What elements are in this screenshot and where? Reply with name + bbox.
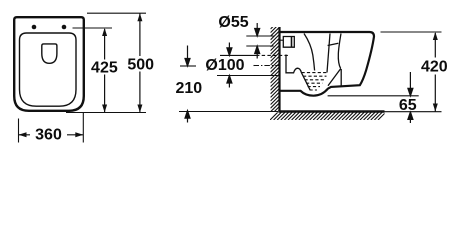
360 left extension line [18,119,20,143]
arrow 425 down [102,105,107,113]
arrow 360 left [19,132,27,137]
dim 100: bottom edge line [217,75,280,77]
label 360 [32,128,66,142]
dim 100: upper arrow [227,43,232,56]
bolt dot left [32,25,37,30]
wall face line [278,27,280,112]
inlet spud outer box [283,37,294,48]
65 top extension line [328,95,419,97]
floor line (thick under toilet) [278,110,384,112]
label 500 [127,57,156,72]
side-view bowl back inner wall [304,34,315,71]
dim line 425 [104,29,106,113]
svg-text:Ø100: Ø100 [205,57,244,74]
wall hatching [271,21,280,120]
500 top extension line [87,12,146,14]
dim line 420 [434,33,436,112]
arrow 420 up [433,32,438,40]
arrow 360 right [75,132,83,137]
dim line 360 [19,134,84,136]
toilet top-view outer body [14,17,84,111]
svg-text:360: 360 [35,127,62,144]
label diameter 100 [205,58,245,72]
dim 65: lower arrow [408,112,413,123]
arrow 425 up [102,28,107,36]
svg-text:210: 210 [175,80,202,97]
bolt dot right [62,25,67,30]
svg-text:425: 425 [91,59,118,76]
dim 210: top tick line [180,65,196,67]
label 65 [396,98,419,111]
dim 100: top edge hidden continuation [256,54,290,56]
label 420 [420,59,449,73]
arrow 420 down [433,104,438,112]
dim 55: upper arrow [255,23,260,36]
inlet spud flange line [291,37,293,48]
floor reference line (thin, to dimension area) [179,111,442,113]
toilet top-view seat inner ring [20,33,77,106]
svg-text:500: 500 [127,56,154,73]
water dashes in trap [302,73,329,90]
svg-text:420: 420 [421,59,448,76]
dim 100: centerline [254,65,281,67]
dim 210: upper arrow [185,46,190,67]
arrow 500 down [137,105,142,113]
dim 100: top edge line [220,54,256,56]
420 top extension line [381,31,442,33]
dim 55: top edge line [246,35,273,37]
side-view trap weir [286,55,310,90]
side-view trap right inner wall [328,69,341,86]
side-view flush funnel line [327,34,330,73]
svg-text:65: 65 [399,97,417,114]
bottom reference line for 425/500 [66,112,146,114]
inlet spud wall tick [281,39,284,41]
dim 210: lower arrow [185,111,190,123]
side-view bowl front inner wall [338,34,341,69]
leader line from bolt dots (425 top reference) [73,27,113,29]
360 right extension line [82,112,84,143]
dim line 500 [139,13,141,112]
dim 100: lower arrow [227,76,232,88]
toilet side-view silhouette [280,32,375,96]
label 425 [91,60,120,75]
toilet top-view water spot [42,44,57,63]
floor hatching [270,112,386,120]
dim 65: upper arrow [408,72,413,96]
side-view bowl shelf line [328,43,339,45]
dim 55: bottom edge line [246,45,273,47]
arrow 500 up [137,13,142,21]
svg-text:Ø55: Ø55 [218,14,248,31]
dim 55: lower arrow [255,46,260,59]
